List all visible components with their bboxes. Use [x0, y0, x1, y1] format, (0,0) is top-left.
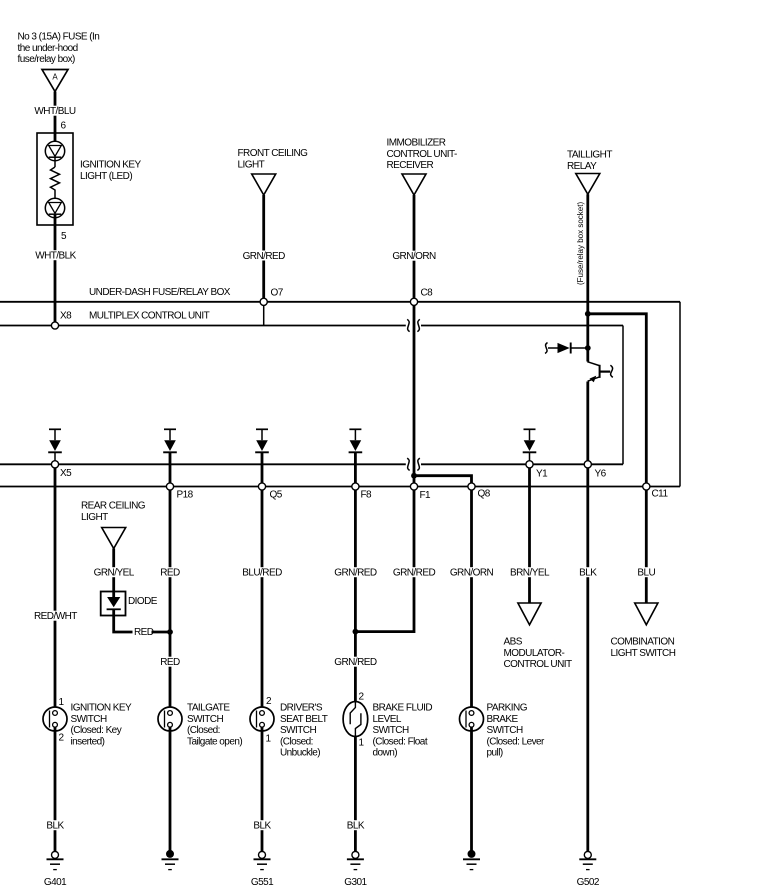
svg-text:IGNITION KEY: IGNITION KEY [80, 160, 142, 171]
wire RED label to junction [152, 631, 171, 634]
svg-text:O7: O7 [271, 288, 284, 299]
connector O7 [260, 288, 284, 306]
wire branch to C11 [588, 314, 647, 483]
label RED/WHT [33, 611, 78, 622]
svg-text:BRAKE: BRAKE [487, 714, 519, 725]
svg-text:P18: P18 [177, 490, 194, 501]
ground (tailgate switch, body) [162, 850, 179, 870]
svg-text:LIGHT SWITCH: LIGHT SWITCH [611, 648, 676, 659]
svg-text:WHT/BLK: WHT/BLK [35, 251, 76, 262]
multiplex control unit top edge (with connector break at C8 wire) [0, 319, 623, 331]
label WHT/BLK [34, 250, 77, 261]
internal diode at Q5 [255, 429, 269, 452]
svg-text:Unbuckle): Unbuckle) [280, 748, 320, 759]
junction F1/Q8 [411, 473, 417, 479]
svg-text:GRN/RED: GRN/RED [393, 568, 436, 579]
wire transistor to Y6 [586, 382, 589, 462]
svg-text:SWITCH: SWITCH [487, 725, 523, 736]
svg-text:CONTROL UNIT-: CONTROL UNIT- [387, 149, 457, 160]
multiplex control unit bottom edge (with connector break at F1 wire) [0, 458, 623, 470]
internal diode (multiplex control unit) [545, 343, 586, 354]
wire diode to RED junction [114, 609, 133, 632]
internal diode at P18 [163, 429, 177, 452]
label RED (upper) [159, 567, 181, 578]
svg-text:G551: G551 [251, 877, 274, 888]
connector Y6 [584, 461, 606, 480]
svg-text:Y1: Y1 [536, 469, 548, 480]
wire rear ceiling light to diode (GRN/YEL) [112, 549, 115, 598]
svg-text:BRN/YEL: BRN/YEL [510, 568, 550, 579]
svg-text:TAILGATE: TAILGATE [187, 703, 230, 714]
svg-text:Q5: Q5 [270, 490, 283, 501]
svg-text:RED/WHT: RED/WHT [34, 611, 77, 622]
brake fluid level switch [343, 702, 368, 737]
label IGNITION KEY LIGHT (LED) [80, 160, 142, 182]
wire diode to Q5 [261, 452, 264, 483]
ground G401 [44, 851, 67, 888]
svg-text:LIGHT (LED): LIGHT (LED) [80, 171, 132, 182]
svg-text:COMBINATION: COMBINATION [611, 637, 675, 648]
label TAILLIGHT RELAY [567, 150, 612, 172]
svg-text:SWITCH: SWITCH [71, 714, 107, 725]
ground G502 [577, 851, 600, 888]
svg-text:(Closed:: (Closed: [280, 736, 313, 747]
label WHT/BLU [33, 106, 76, 117]
label BLU [636, 567, 656, 578]
wire diode to P18 [169, 452, 172, 483]
svg-text:Q8: Q8 [478, 489, 491, 500]
parking brake switch [460, 707, 484, 731]
wire tailgate switch to ground [169, 727, 172, 851]
svg-text:SEAT BELT: SEAT BELT [280, 714, 328, 725]
svg-text:SWITCH: SWITCH [373, 725, 409, 736]
ground (parking brake switch, body) [463, 850, 480, 870]
wire seat belt switch to G551 (BLK) [261, 727, 264, 851]
label DRIVER'S SEAT BELT SWITCH [280, 703, 328, 759]
wire ignition key light to X8 (WHT/BLK) [54, 225, 57, 322]
svg-text:BLK: BLK [347, 821, 365, 832]
wire ignition key switch to G401 (BLK) [54, 727, 57, 851]
wire Y1 to ABS modulator (BRN/YEL) [528, 468, 531, 603]
connector Q5 [258, 483, 282, 501]
wire F1 down and left to F8 wire (GRN/RED) [355, 490, 414, 631]
connector C11 [643, 483, 669, 500]
label PARKING BRAKE SWITCH [487, 703, 546, 759]
svg-text:(Closed:: (Closed: [187, 725, 220, 736]
svg-text:UNDER-DASH FUSE/RELAY BOX: UNDER-DASH FUSE/RELAY BOX [89, 287, 231, 298]
under-dash fuse/relay box right edge [679, 302, 681, 487]
label GRN/RED [242, 251, 286, 262]
svg-text:DRIVER'S: DRIVER'S [280, 703, 323, 714]
connector triangle (immobilizer receiver) [402, 174, 426, 195]
junction to C11 branch [585, 311, 591, 317]
connector Y1 [526, 461, 548, 480]
connector A (fuse) triangle [42, 70, 68, 92]
svg-text:GRN/YEL: GRN/YEL [94, 568, 135, 579]
svg-text:BLU/RED: BLU/RED [242, 568, 282, 579]
svg-text:the under-hood: the under-hood [18, 43, 78, 54]
label GRN/YEL [93, 567, 135, 578]
svg-text:G502: G502 [577, 877, 600, 888]
wire C11 to combination light switch (BLU) [645, 490, 648, 603]
svg-text:X5: X5 [60, 468, 72, 479]
junction rear ceiling / tailgate wire [167, 629, 173, 635]
wire O7 to multiplex control unit [263, 305, 265, 325]
svg-text:C11: C11 [652, 489, 669, 500]
wire Q5 to seat belt switch (BLU/RED) [261, 490, 264, 711]
ignition key light box [37, 133, 73, 225]
label BLK (ignition) [45, 820, 64, 831]
wire taillight relay down to transistor [586, 194, 589, 361]
label BLK (seat belt) [252, 820, 271, 831]
svg-text:F8: F8 [361, 490, 373, 501]
label BRN/YEL [509, 567, 550, 578]
internal diode at X5 [48, 429, 62, 460]
label BLK (Y6) [578, 567, 597, 578]
svg-text:DIODE: DIODE [128, 596, 158, 607]
svg-text:F1: F1 [420, 490, 432, 501]
wire Y6 to G502 (BLK) [586, 468, 589, 851]
wire front ceiling light to O7 (GRN/RED) [262, 195, 265, 298]
under-dash fuse/relay box bottom edge [0, 486, 680, 488]
wire branch to Q8 [414, 476, 472, 483]
label GRN/ORN [391, 251, 436, 262]
svg-text:GRN/RED: GRN/RED [334, 568, 377, 579]
wire brake fluid switch to G301 (BLK) [354, 736, 357, 851]
svg-text:BLK: BLK [253, 821, 271, 832]
label REAR CEILING LIGHT [81, 501, 146, 523]
wire diode to F8 [354, 452, 357, 483]
svg-text:LIGHT: LIGHT [238, 159, 265, 170]
svg-text:GRN/ORN: GRN/ORN [392, 251, 436, 262]
svg-text:fuse/relay box): fuse/relay box) [18, 54, 76, 65]
svg-text:C8: C8 [421, 288, 434, 299]
connector triangle (combination light switch) [635, 603, 658, 625]
resistor (ignition key light internal) [51, 167, 60, 192]
multiplex control unit right edge [622, 326, 624, 465]
svg-text:RECEIVER: RECEIVER [387, 160, 434, 171]
connector P18 [166, 483, 193, 501]
svg-text:LIGHT: LIGHT [81, 512, 108, 523]
label BLU/RED [241, 567, 283, 578]
connector triangle (ABS modulator-control unit) [518, 603, 541, 625]
label BRAKE FLUID LEVEL SWITCH [373, 703, 433, 759]
connector F1 [410, 483, 431, 501]
svg-text:CONTROL UNIT: CONTROL UNIT [504, 659, 572, 670]
svg-text:BLU: BLU [637, 568, 655, 579]
wire C8 down through multiplex unit to F1 [413, 305, 416, 483]
transistor (multiplex control unit) [587, 362, 613, 383]
svg-text:(Fuse/relay box socket): (Fuse/relay box socket) [576, 202, 585, 285]
label GRN/RED (F8) [333, 567, 377, 578]
wire inside ignition key light [54, 133, 57, 146]
svg-text:inserted): inserted) [71, 736, 105, 747]
svg-text:(Closed: Float: (Closed: Float [373, 736, 428, 747]
internal diode at Y1 [523, 429, 537, 460]
label GRN/RED (lower) [333, 657, 377, 668]
wire LED2 to box bottom [54, 215, 57, 225]
svg-text:LEVEL: LEVEL [373, 714, 402, 725]
connector Q8 [468, 483, 491, 500]
svg-text:pull): pull) [487, 748, 503, 759]
connector X5 [51, 461, 72, 479]
svg-text:X8: X8 [60, 311, 72, 322]
svg-text:IGNITION KEY: IGNITION KEY [71, 703, 133, 714]
svg-text:BLK: BLK [46, 821, 64, 832]
svg-text:FRONT CEILING: FRONT CEILING [238, 148, 309, 159]
ignition key switch [43, 707, 67, 731]
svg-text:IMMOBILIZER: IMMOBILIZER [387, 138, 446, 149]
connector F8 [352, 483, 372, 501]
junction F1/F8 [353, 629, 359, 635]
wire Q8 to parking brake switch (GRN/ORN) [470, 490, 473, 711]
LED 1 (top) [45, 141, 64, 160]
svg-text:TAILLIGHT: TAILLIGHT [567, 150, 612, 161]
label IGNITION KEY SWITCH [71, 703, 133, 748]
label RED (lower) [159, 657, 181, 668]
wire X5 to ignition key switch (RED/WHT) [54, 468, 57, 711]
label FRONT CEILING LIGHT [238, 148, 309, 170]
svg-text:ABS: ABS [504, 637, 523, 648]
svg-text:RELAY: RELAY [567, 161, 597, 172]
svg-text:MODULATOR-: MODULATOR- [504, 648, 565, 659]
svg-text:No 3 (15A) FUSE (In: No 3 (15A) FUSE (In [18, 32, 100, 43]
wire fuse to ignition key light (WHT/BLU) [54, 92, 57, 134]
svg-text:REAR CEILING: REAR CEILING [81, 501, 146, 512]
tailgate switch [158, 707, 182, 731]
connector triangle (rear ceiling light) [102, 528, 126, 549]
svg-text:down): down) [373, 748, 398, 759]
under-dash fuse/relay box top edge [0, 301, 680, 303]
wire LED1 to resistor [54, 161, 56, 167]
connector triangle (front ceiling light) [252, 174, 276, 195]
svg-text:(Closed: Key: (Closed: Key [71, 725, 122, 736]
svg-text:BLK: BLK [579, 568, 597, 579]
driver's seat belt switch [250, 707, 274, 731]
internal diode at F8 [349, 429, 363, 452]
svg-text:SWITCH: SWITCH [187, 714, 223, 725]
diode (rear ceiling light) [101, 592, 126, 616]
wire resistor to LED2 [54, 192, 56, 203]
ground G301 [344, 851, 367, 888]
label ABS MODULATOR-CONTROL UNIT [504, 637, 572, 671]
svg-text:G401: G401 [44, 877, 67, 888]
svg-text:Y6: Y6 [595, 469, 607, 480]
label GRN/RED (F1) [392, 567, 436, 578]
svg-text:(Closed: Lever: (Closed: Lever [487, 736, 546, 747]
label BLK (brake fluid) [346, 820, 365, 831]
svg-text:Tailgate open): Tailgate open) [187, 736, 242, 747]
svg-text:WHT/BLU: WHT/BLU [34, 106, 75, 117]
svg-text:G301: G301 [344, 877, 367, 888]
label GRN/ORN [449, 567, 494, 578]
wire P18 to tailgate switch (RED) [169, 490, 172, 711]
svg-text:GRN/RED: GRN/RED [243, 251, 286, 262]
wire immobilizer to C8 (GRN/ORN) [413, 195, 416, 298]
svg-text:GRN/RED: GRN/RED [334, 657, 377, 668]
ground G551 [251, 851, 274, 888]
connector X8 [51, 311, 72, 330]
wire parking brake switch to ground [470, 727, 473, 851]
LED 2 (bottom) [45, 198, 64, 217]
connector C8 [410, 288, 433, 306]
label No 3 (15A) FUSE [18, 32, 100, 66]
svg-text:RED: RED [134, 627, 154, 638]
wire F8 to brake fluid level switch (GRN/RED) [354, 490, 357, 702]
svg-text:GRN/ORN: GRN/ORN [450, 568, 494, 579]
junction at internal diode [585, 345, 591, 351]
connector triangle (taillight relay) [576, 174, 600, 195]
label COMBINATION LIGHT SWITCH [611, 637, 676, 659]
svg-text:SWITCH: SWITCH [280, 725, 316, 736]
svg-text:MULTIPLEX CONTROL UNIT: MULTIPLEX CONTROL UNIT [89, 311, 210, 322]
svg-text:A: A [52, 73, 58, 82]
svg-text:BRAKE FLUID: BRAKE FLUID [373, 703, 433, 714]
label TAILGATE SWITCH [187, 703, 242, 748]
svg-text:PARKING: PARKING [487, 703, 528, 714]
svg-text:RED: RED [160, 568, 180, 579]
svg-text:RED: RED [160, 657, 180, 668]
label IMMOBILIZER CONTROL UNIT-RECEIVER [387, 138, 457, 172]
